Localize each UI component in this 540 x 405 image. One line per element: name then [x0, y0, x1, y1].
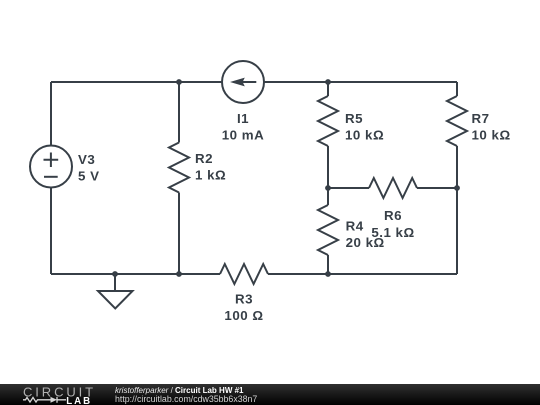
label R3 value 100 Ohm [224, 308, 263, 323]
svg-text:5 V: 5 V [78, 169, 100, 184]
wire top-right: I1 right terminal to (457,82) [264, 81, 457, 83]
wire bottom-left: (51,274) to R3 left [51, 273, 220, 275]
svg-text:LAB: LAB [66, 396, 92, 405]
label R2 name [195, 151, 213, 166]
wire left vertical upper: (51,82) to V3 top [50, 82, 52, 146]
label R7 name [472, 111, 490, 126]
V3 plus sign [44, 153, 59, 168]
wire R2 branch bottom: R2 to node (179,274) [178, 193, 180, 275]
label V3 value 5 V [78, 169, 100, 184]
resistor R2 zigzag [169, 143, 189, 193]
svg-text:R2: R2 [195, 151, 213, 166]
label I1 value 10 mA [222, 128, 265, 143]
svg-text:R4: R4 [346, 218, 364, 233]
wire mid-right: R6 right to node (457,188) [417, 187, 457, 189]
label R5 name [345, 111, 363, 126]
svg-text:10 mA: 10 mA [222, 128, 265, 143]
svg-text:10 kΩ: 10 kΩ [345, 128, 384, 143]
wire R4 bottom: R4 to node (328,274) [327, 255, 329, 274]
logo resistor-diode symbol [23, 397, 66, 403]
voltage source V3 circle [30, 146, 72, 188]
resistor R7 zigzag [447, 96, 467, 146]
wire right vertical upper: (457,82) down to R7 [456, 82, 458, 96]
node junction ground (115,274) [112, 271, 118, 277]
wire right vertical lower: R7 bottom through node (457,188) to (457,274) [456, 146, 458, 274]
logo word CIRCUIT [23, 385, 96, 400]
label R4 name [346, 218, 364, 233]
svg-text:I1: I1 [237, 111, 249, 126]
ground triangle [98, 291, 133, 309]
label R5 value 10 kOhm [345, 128, 384, 143]
svg-text:20 kΩ: 20 kΩ [346, 235, 385, 250]
label R2 value 1 kOhm [195, 167, 226, 182]
ground stem [114, 274, 116, 291]
svg-text:1 kΩ: 1 kΩ [195, 167, 226, 182]
svg-text:V3: V3 [78, 152, 95, 167]
wire R2 branch top: node (179,82) down to R2 [178, 82, 180, 143]
wire mid-left: node (328,188) to R6 left [328, 187, 369, 189]
V3 minus sign [44, 176, 58, 178]
label R6 value 5.1 kOhm [371, 225, 414, 240]
svg-text:R5: R5 [345, 111, 363, 126]
footer title line [115, 387, 243, 395]
resistor R3 zigzag [220, 264, 268, 284]
svg-text:100 Ω: 100 Ω [224, 308, 263, 323]
resistor R4 zigzag [318, 205, 338, 255]
I1 arrow (points left) [230, 78, 256, 87]
svg-text:10 kΩ: 10 kΩ [472, 128, 511, 143]
logo word LAB [66, 396, 92, 405]
wire top-left: node at (51,82) to I1 left terminal [51, 81, 222, 83]
label R3 name [235, 291, 253, 306]
label R6 name [384, 208, 402, 223]
footer url line [115, 395, 257, 404]
label R4 value 20 kOhm [346, 235, 385, 250]
CircuitLab logo [22, 384, 122, 405]
node junction (179,274) [176, 271, 182, 277]
svg-text:R7: R7 [472, 111, 490, 126]
current source I1 circle [222, 61, 264, 103]
svg-text:R6: R6 [384, 208, 402, 223]
node junction (328,82) [325, 79, 331, 85]
node junction (179,82) [176, 79, 182, 85]
wire R5 to node B: R5 bottom to (328,188) [327, 146, 329, 188]
label I1 name [237, 111, 249, 126]
node junction (328,188) [325, 185, 331, 191]
label R7 value 10 kOhm [472, 128, 511, 143]
label V3 name [78, 152, 95, 167]
svg-text:R3: R3 [235, 291, 253, 306]
footer bar [0, 384, 540, 405]
resistor R5 zigzag [318, 96, 338, 146]
resistor R6 zigzag [369, 178, 417, 198]
node junction (328,274) [325, 271, 331, 277]
wire R5 branch top: node (328,82) down to R5 [327, 82, 329, 96]
node junction (457,188) [454, 185, 460, 191]
wire bottom-right: R3 right to (457,274) [268, 273, 457, 275]
wire R4 top: node (328,188) down to R4 [327, 188, 329, 205]
wire left vertical lower: V3 bottom to (51,274) [50, 188, 52, 275]
